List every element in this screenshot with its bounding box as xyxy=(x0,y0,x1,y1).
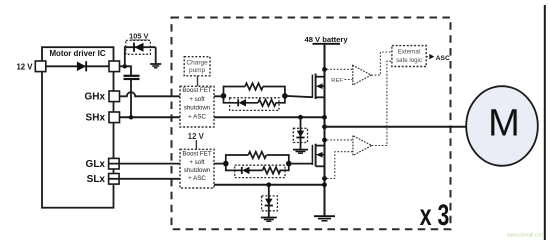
battery terminal xyxy=(313,43,341,45)
svg-text:REF: REF xyxy=(331,78,343,84)
wire GLx xyxy=(109,163,226,165)
bootstrap capacitor C1 xyxy=(124,76,140,118)
svg-text:safe logic: safe logic xyxy=(396,57,422,64)
boot FET block high side xyxy=(180,86,214,127)
wire GHx with hop xyxy=(120,92,224,96)
svg-text:+ ASC: + ASC xyxy=(188,175,206,182)
wire gate low xyxy=(289,163,313,165)
svg-text:+ soft: + soft xyxy=(189,96,205,103)
wire charge pump to boot box xyxy=(197,76,199,87)
svg-text:105 V: 105 V xyxy=(129,32,148,41)
motor M xyxy=(466,86,538,166)
wire SLx bus low xyxy=(214,184,325,186)
junction SHx/phase xyxy=(322,115,327,120)
pin GLx xyxy=(109,158,120,169)
junction motor line xyxy=(322,124,327,129)
turn-off resistor low R4 xyxy=(263,167,281,174)
svg-text:GLx: GLx xyxy=(86,159,106,170)
comparator U1 (high side VDS) xyxy=(353,65,371,85)
turn-off resistor high R2 xyxy=(258,100,276,107)
turn-off branch dashed box high xyxy=(230,98,279,111)
gate network high: turn-on resistor branch xyxy=(224,87,285,96)
wire gate high xyxy=(285,96,313,97)
svg-text:M: M xyxy=(488,103,520,145)
svg-text:Motor driver IC: Motor driver IC xyxy=(49,49,105,58)
svg-text:GHx: GHx xyxy=(84,92,105,103)
comparator U1 output line xyxy=(371,52,392,75)
svg-text:External: External xyxy=(398,49,420,56)
wire SHx xyxy=(120,116,325,118)
REF line xyxy=(345,79,353,81)
svg-text:shutdown: shutdown xyxy=(184,167,211,174)
105V clamp diode xyxy=(134,43,144,52)
svg-text:pump: pump xyxy=(189,67,206,74)
wire zener high xyxy=(300,117,302,149)
wire turn-off branch low xyxy=(226,164,289,171)
ground (low FET source) xyxy=(314,216,335,221)
external safe logic box xyxy=(392,46,426,67)
junction boot cap / SHx xyxy=(129,115,133,119)
high-side MOSFET Q1 xyxy=(312,74,324,100)
resistor R3 xyxy=(248,152,266,159)
junction SLx bus xyxy=(322,182,327,187)
svg-text:Charge: Charge xyxy=(186,59,208,66)
pin VCP xyxy=(109,61,120,72)
zener diode low xyxy=(265,199,273,206)
reverse-protection diode D1 xyxy=(77,61,86,71)
zener diode high xyxy=(296,131,304,138)
junction clamp node xyxy=(123,64,127,68)
svg-text:12 V: 12 V xyxy=(188,132,205,141)
turn-off diode low xyxy=(242,167,250,174)
junction source sense low xyxy=(322,176,327,181)
svg-text:Boost FET: Boost FET xyxy=(182,151,211,158)
comparator U2 output line xyxy=(372,61,392,145)
node gate-high left xyxy=(221,93,227,99)
wire SLx xyxy=(109,178,181,180)
wire phase to motor xyxy=(325,126,467,128)
sense line source low xyxy=(327,152,353,179)
turn-off branch dashed box low xyxy=(235,165,285,177)
wire clamp node to cap xyxy=(120,66,132,76)
pin GHx xyxy=(109,91,120,102)
wire clamp riser xyxy=(125,47,156,66)
resistor R1 xyxy=(245,83,263,90)
junction 48V sense xyxy=(322,67,327,72)
svg-text:www.cirmall.com: www.cirmall.com xyxy=(507,233,544,239)
svg-text:SLx: SLx xyxy=(87,174,106,185)
svg-text:12 V: 12 V xyxy=(16,62,33,71)
svg-text:x 3: x 3 xyxy=(420,199,450,232)
low-side MOSFET Q2 xyxy=(312,144,324,167)
ground (clamp) xyxy=(150,47,161,68)
svg-text:48 V battery: 48 V battery xyxy=(305,35,349,44)
svg-text:+ soft: + soft xyxy=(189,159,205,166)
turn-off diode high xyxy=(238,99,246,106)
wire turn-off branch high xyxy=(224,96,285,103)
motor driver IC box xyxy=(42,47,114,208)
comparator U2 (low side VDS) xyxy=(353,136,372,156)
junction zener high tap xyxy=(298,115,303,120)
node gate-low left xyxy=(223,161,229,167)
svg-text:shutdown: shutdown xyxy=(184,104,211,111)
ground (zener low) xyxy=(261,218,277,222)
junction drain sense low xyxy=(322,138,327,143)
ASC output arrow xyxy=(426,54,434,59)
junction zener low tap xyxy=(266,182,271,187)
12V input pin xyxy=(35,61,46,72)
gate network low: turn-on resistor branch xyxy=(226,155,289,164)
svg-text:SHx: SHx xyxy=(86,113,106,124)
svg-text:ASC: ASC xyxy=(436,55,450,62)
pin SLx xyxy=(109,174,120,185)
wire 12V to boot box low xyxy=(195,140,197,149)
zener diode box low xyxy=(262,196,278,211)
zener diode box high xyxy=(293,128,307,142)
page border line xyxy=(544,5,546,240)
node gate-low right xyxy=(286,161,292,167)
x3 module dashed box xyxy=(172,18,451,230)
boot FET block low side xyxy=(180,149,214,188)
svg-text:Boost FET: Boost FET xyxy=(182,87,211,94)
node gate-high right xyxy=(282,93,288,99)
105V clamp diode box xyxy=(126,40,151,54)
svg-text:+ ASC: + ASC xyxy=(188,114,206,121)
pin SHx xyxy=(109,112,120,123)
sense line drain low xyxy=(327,139,353,141)
wire 48V rail / phase leg xyxy=(324,44,326,216)
ground (zener high) xyxy=(293,150,308,154)
sense line 48V to comparator xyxy=(327,68,353,70)
wire zener low xyxy=(268,185,270,217)
charge pump box xyxy=(184,57,210,76)
wire 12V rail xyxy=(46,65,109,67)
